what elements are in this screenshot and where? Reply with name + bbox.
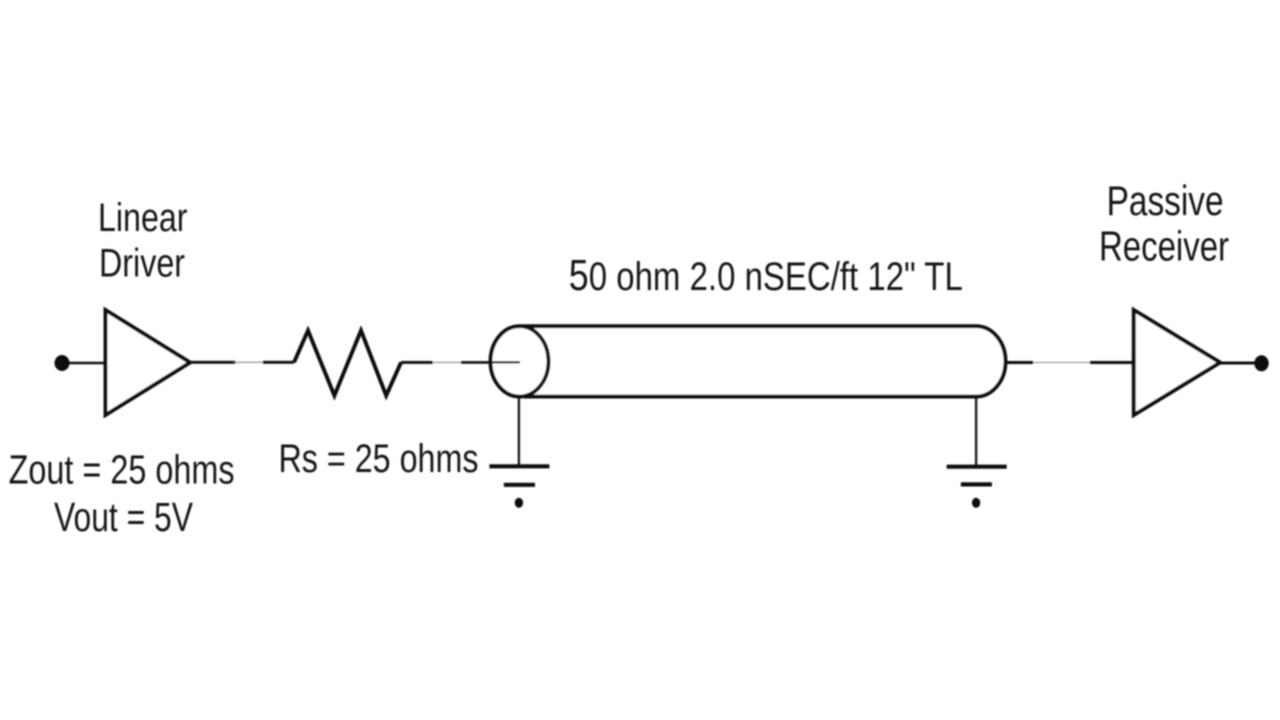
ground (left) bbox=[489, 464, 549, 468]
transmission line left end cap bbox=[491, 326, 549, 396]
svg-text:Vout = 5V: Vout = 5V bbox=[54, 494, 193, 540]
svg-text:Zout = 25 ohms: Zout = 25 ohms bbox=[9, 446, 235, 492]
wire driver to resistor bbox=[188, 361, 236, 364]
receiver U2 (passive receiver triangle) bbox=[1134, 310, 1220, 415]
svg-text:Rs = 25 ohms: Rs = 25 ohms bbox=[279, 437, 479, 481]
svg-text:Receiver: Receiver bbox=[1099, 223, 1229, 270]
svg-text:Passive: Passive bbox=[1107, 177, 1224, 224]
wire TL right to ground bbox=[975, 397, 977, 466]
svg-text:50 ohm 2.0 nSEC/ft 12" TL: 50 ohm 2.0 nSEC/ft 12" TL bbox=[569, 252, 963, 300]
ground (right) bbox=[947, 465, 1007, 469]
node output dot bbox=[1254, 355, 1268, 371]
wire dot to driver bbox=[68, 362, 105, 365]
wire stub into left cap center bbox=[491, 361, 520, 363]
wire TL left to ground bbox=[518, 397, 520, 466]
transmission line TL1 (cylinder body) bbox=[522, 326, 1006, 396]
svg-text:Driver: Driver bbox=[99, 242, 185, 286]
wire resistor to transmission line bbox=[401, 361, 433, 364]
svg-text:Linear: Linear bbox=[98, 196, 188, 240]
resistor Rs bbox=[294, 331, 401, 396]
node input dot bbox=[55, 355, 70, 371]
wire receiver to output dot bbox=[1218, 362, 1256, 365]
wire TL to receiver bbox=[1006, 361, 1034, 364]
driver U1 (linear driver triangle) bbox=[106, 310, 191, 415]
